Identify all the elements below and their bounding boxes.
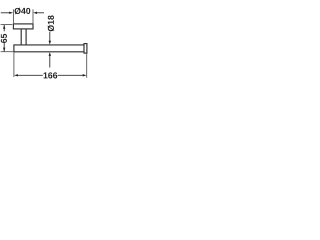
end cap	[84, 44, 87, 54]
dim O18: value label (rotated)	[48, 15, 55, 31]
dim 65: bottom extension line	[1, 51, 14, 53]
post right line	[25, 29, 27, 45]
dim O18: upper line with down arrow to bar top	[49, 32, 51, 41]
dim 166: left dimension line segment with left arrow	[18, 74, 43, 76]
dim 65: lower dimension line segment with down arrow	[3, 43, 5, 52]
dim 166: right dimension line segment with right arrow	[58, 74, 84, 76]
dim 65: upper dimension line segment with up arrow	[3, 25, 5, 31]
dim O40: left arrow	[1, 12, 10, 14]
dim 166: left extension line	[13, 52, 15, 77]
dim O18: lower line with up arrow to bar bottom	[49, 56, 51, 68]
dim 166: right extension line	[86, 53, 88, 78]
dim 65: top extension line	[1, 24, 13, 26]
bar left end edge	[13, 44, 15, 52]
dim O40: right extension line	[32, 9, 34, 23]
dim 166: value label	[44, 72, 58, 78]
dim O40: right arrow	[37, 12, 44, 14]
dim O40: left extension line	[12, 9, 14, 23]
dim O40: value label	[15, 8, 31, 15]
post left line	[20, 29, 22, 45]
bar top edge	[14, 44, 84, 46]
bar bottom edge	[14, 51, 84, 53]
wall plate (flange) outline	[13, 24, 33, 29]
dim 65: value label (rotated)	[1, 34, 7, 43]
